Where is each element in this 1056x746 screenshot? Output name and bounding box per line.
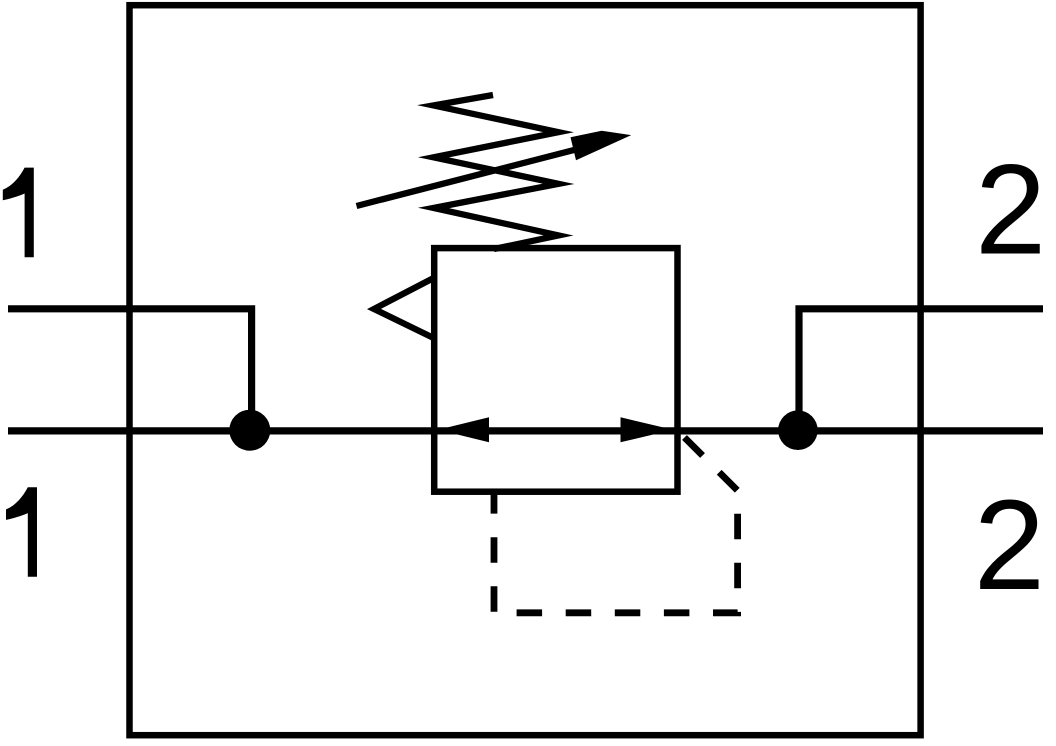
main flow line 1-2 <box>8 427 1043 434</box>
enclosure box <box>130 5 921 735</box>
flow arrowhead right <box>621 417 674 442</box>
relief vent triangle <box>374 278 434 338</box>
junction dot right <box>778 410 818 450</box>
svg-text:2: 2 <box>975 138 1046 281</box>
port 2 upper branch line <box>799 309 1043 428</box>
svg-text:2: 2 <box>974 474 1045 617</box>
pilot control line (dashed) <box>494 438 738 613</box>
adjustment arrowhead <box>571 131 632 161</box>
flow arrowhead left <box>438 417 489 442</box>
adjustment arrow shaft <box>357 142 606 206</box>
junction dot left <box>229 410 270 451</box>
label 1 upper <box>3 168 34 258</box>
label 1 lower <box>6 487 37 577</box>
adjustment spring <box>434 95 559 249</box>
port 1 upper branch line <box>8 309 252 428</box>
valve body <box>434 248 677 492</box>
